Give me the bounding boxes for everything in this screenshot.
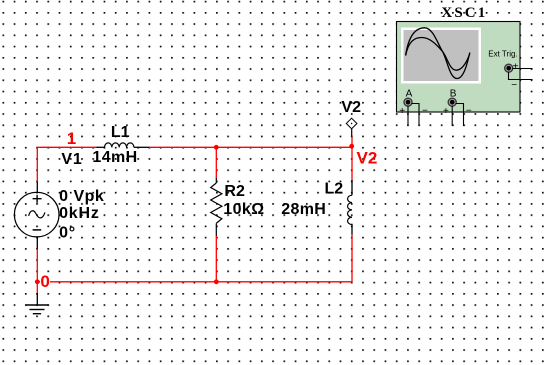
terminal B plus sign bbox=[443, 106, 449, 117]
svg-text:0°: 0° bbox=[59, 225, 76, 242]
net label 0 bbox=[40, 272, 50, 291]
oscilloscope screen waveform trace 2 bbox=[406, 38, 470, 71]
value label 28mH bbox=[281, 201, 326, 218]
wire: V2 probe lead down through corner to L2 top bbox=[351, 137, 353, 180]
label L1 bbox=[111, 124, 130, 141]
junction: R2 bottom bbox=[214, 279, 219, 284]
wire: V1 top pin to top-left corner to L1 bbox=[37, 147, 96, 181]
label V1 bbox=[61, 151, 82, 168]
value label 0kHz bbox=[59, 205, 100, 222]
label Ext Trig bbox=[488, 49, 517, 58]
svg-text:+: + bbox=[513, 62, 519, 73]
wire: terminal B plus stub bbox=[451, 106, 453, 127]
terminal A minus sign bbox=[422, 105, 428, 116]
svg-text:L2: L2 bbox=[325, 181, 344, 198]
svg-text:−: − bbox=[466, 105, 472, 116]
junction: node V2 probe tap bbox=[349, 144, 354, 149]
svg-text:L1: L1 bbox=[111, 124, 130, 141]
svg-text:1: 1 bbox=[67, 129, 76, 148]
wire: terminal B minus stub bbox=[456, 104, 464, 127]
svg-text:XSC1: XSC1 bbox=[441, 5, 487, 21]
source V1 (AC voltage source) bbox=[14, 182, 59, 249]
instrument title XSC1 bbox=[441, 5, 487, 21]
svg-text:R2: R2 bbox=[224, 183, 245, 200]
value label 10kOhm bbox=[223, 201, 264, 218]
wire: bottom bus from V1 branch to bottom-right corner bbox=[37, 281, 352, 283]
label R2 bbox=[224, 183, 245, 200]
net label V2 bbox=[357, 148, 378, 167]
resistor R2 bbox=[211, 178, 222, 236]
svg-text:0 Vpk: 0 Vpk bbox=[59, 188, 104, 205]
label B bbox=[450, 89, 457, 100]
terminal B minus sign bbox=[466, 105, 472, 116]
inductor L1 bbox=[97, 143, 149, 147]
svg-text:Ext Trig.: Ext Trig. bbox=[488, 49, 517, 58]
svg-text:B: B bbox=[450, 89, 457, 100]
net label 1 bbox=[67, 129, 76, 148]
wire: Ext Trig minus stub bbox=[509, 72, 533, 80]
wire: Ext Trig plus stub bbox=[512, 68, 532, 70]
terminal Ext Trig bbox=[505, 64, 513, 72]
svg-text:−: − bbox=[511, 80, 517, 91]
svg-text:V2: V2 bbox=[357, 148, 378, 167]
junction: node 0 at V1 bottom bbox=[35, 279, 40, 284]
terminal A plus sign bbox=[399, 106, 405, 117]
value label 14mH bbox=[92, 149, 137, 166]
wire: V1 bottom pin down to ground bbox=[36, 249, 38, 293]
svg-text:10kΩ: 10kΩ bbox=[223, 201, 264, 218]
svg-text:0: 0 bbox=[40, 272, 49, 291]
svg-text:V1: V1 bbox=[61, 151, 82, 168]
terminal Ext plus sign bbox=[513, 62, 519, 73]
svg-text:+: + bbox=[443, 106, 449, 117]
terminal B bbox=[448, 98, 456, 106]
wire: R2 top lead bbox=[215, 147, 217, 177]
ground bbox=[26, 293, 49, 314]
oscilloscope XSC1 bbox=[397, 22, 521, 113]
wire: L1 right lead to node junction to top-right corner bbox=[149, 146, 352, 148]
svg-text:−: − bbox=[422, 105, 428, 116]
oscilloscope screen waveform trace 1 bbox=[406, 28, 470, 79]
svg-text:+: + bbox=[399, 106, 405, 117]
probe V2 (diamond measurement probe) bbox=[346, 118, 357, 136]
label V2 (probe name) bbox=[341, 99, 361, 116]
wire: terminal A plus stub bbox=[407, 106, 409, 127]
junction: node 1 / R2 top bbox=[214, 145, 219, 150]
value label 0deg bbox=[59, 225, 76, 242]
value label 0 Vpk bbox=[59, 188, 104, 205]
svg-text:28mH: 28mH bbox=[281, 201, 326, 218]
svg-text:A: A bbox=[406, 89, 413, 100]
wire: R2 bottom lead bbox=[215, 236, 217, 282]
label A bbox=[406, 89, 413, 100]
label L2 bbox=[325, 181, 344, 198]
wire: terminal A minus stub bbox=[412, 104, 420, 127]
terminal A bbox=[404, 98, 412, 106]
svg-text:0kHz: 0kHz bbox=[59, 205, 100, 222]
svg-text:V2: V2 bbox=[341, 99, 361, 116]
inductor L2 bbox=[348, 180, 352, 235]
wire: L2 bottom to bottom-right corner bbox=[351, 235, 353, 282]
svg-text:14mH: 14mH bbox=[92, 149, 137, 166]
terminal Ext minus sign bbox=[511, 80, 517, 91]
